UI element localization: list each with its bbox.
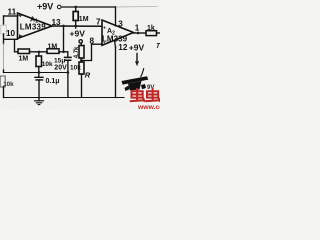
speaker diaphragm (pictorial)	[122, 76, 149, 84]
resistor 10k R vertical	[79, 62, 84, 74]
wire pin8 link	[82, 44, 103, 60]
resistor 10k left border	[0, 76, 5, 87]
wire left border lower	[3, 87, 5, 98]
wire output down to divider	[63, 26, 65, 52]
junction A2 output	[137, 32, 140, 35]
resistor 10k vertical #1	[36, 56, 42, 67]
wire 0.1u bottom lead	[38, 80, 40, 101]
wire left border upper	[3, 16, 5, 25]
wire pullup top stub	[75, 7, 77, 12]
wire A2 output	[134, 32, 147, 34]
background	[0, 0, 160, 110]
resistor 4.7k vertical	[79, 46, 84, 59]
resistor 1k output	[146, 31, 157, 36]
wire pin10 input A1	[4, 38, 18, 40]
wire ground rail bottom	[4, 97, 125, 99]
wire pin12 down	[115, 47, 117, 98]
junction 1M divider to 10k	[38, 51, 41, 54]
wire divider node	[81, 58, 83, 62]
wire output to edge	[157, 32, 161, 34]
wire 10k top stub	[38, 52, 40, 56]
arrowhead +9V feed	[135, 61, 139, 66]
A1 inverting input mark	[19, 34, 22, 37]
wire pin12 diagonal	[115, 40, 116, 47]
wire to cap node	[59, 51, 68, 53]
junction feedback node to 15u cap	[62, 50, 65, 53]
watermark character 2	[145, 88, 160, 102]
wire node to second 1M	[30, 51, 48, 53]
wire feedback drop	[15, 39, 19, 52]
wire pullup bottom stub	[75, 21, 77, 29]
cropped text right edge	[157, 44, 160, 49]
wire pin11 input A1	[4, 15, 18, 17]
speaker left leg	[125, 86, 130, 92]
op-amp U1 LM339 triangle	[18, 13, 53, 39]
junction A1 output to 1M pull-up	[74, 25, 77, 28]
wire left border mid	[3, 34, 5, 44]
wire 10k bottom stub	[38, 67, 40, 78]
resistor R 1M horizontal #1	[18, 49, 30, 54]
node divider 4.7k/10k to pin 8	[80, 59, 83, 62]
terminal +9V top circle	[57, 5, 61, 9]
junction mid rail to 15u cap lead	[67, 71, 70, 74]
terminal +9V mid circle	[79, 40, 82, 43]
A1 noninverting input mark	[19, 14, 22, 18]
resistor 1M vertical pull-up	[73, 12, 78, 21]
watermark character 1	[130, 88, 145, 102]
speaker magnet body	[128, 81, 142, 91]
wire R bottom	[81, 74, 83, 97]
resistor left border (faint)	[1, 25, 6, 34]
wire 4.7k top stub	[80, 43, 83, 45]
wire cap top lead	[67, 52, 69, 58]
capacitor 0.1u plates	[35, 77, 43, 80]
junction A1 output to feedback drop	[62, 25, 65, 28]
resistor R 1M horizontal #2	[47, 49, 59, 54]
arrow +9V to speaker	[136, 54, 138, 62]
wire top rail faint extension	[116, 6, 158, 9]
capacitor 15u plates	[65, 57, 71, 60]
wire mid horizontal rail	[4, 72, 68, 74]
ground	[35, 101, 44, 105]
junction mid rail to 0.1u cap	[38, 71, 41, 74]
wire speaker lead curve	[141, 68, 144, 77]
wire A1 output	[52, 25, 102, 27]
junction on +9V rail at 1M pull-up	[74, 6, 77, 9]
wire pin3 V+ drop	[115, 7, 117, 26]
speaker right leg	[141, 84, 146, 89]
op-amp U2 LM339 triangle	[102, 20, 134, 45]
wire +9V top rail	[61, 6, 115, 8]
wire cap bottom lead	[67, 60, 69, 97]
